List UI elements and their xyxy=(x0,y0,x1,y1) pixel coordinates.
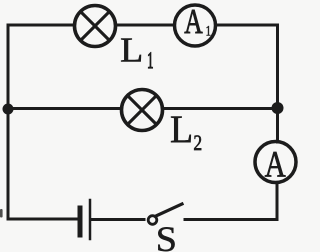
node junction right xyxy=(272,102,284,114)
wire right vertical lower xyxy=(276,183,279,220)
svg-text:S: S xyxy=(156,220,177,252)
svg-text:A: A xyxy=(184,2,202,41)
svg-text:1: 1 xyxy=(206,22,211,39)
wire top segment 2 xyxy=(116,24,174,27)
ammeter A xyxy=(255,142,296,183)
wire left vertical xyxy=(7,25,10,219)
svg-text:L: L xyxy=(120,31,143,69)
wire top segment 1 xyxy=(8,24,74,27)
svg-text:1: 1 xyxy=(147,48,153,74)
wire middle segment 1 xyxy=(8,107,121,110)
svg-text:2: 2 xyxy=(193,131,202,155)
node junction left xyxy=(3,104,14,115)
lamp L1 xyxy=(75,6,116,47)
ammeter A1 xyxy=(175,5,216,46)
label L1 xyxy=(120,31,153,74)
wire top segment 3 xyxy=(216,24,278,27)
wire bottom segment 2 xyxy=(92,218,145,221)
svg-text:A: A xyxy=(265,144,287,185)
wire bottom segment 1 xyxy=(8,218,78,221)
switch S xyxy=(148,204,182,224)
wire right vertical upper xyxy=(276,25,279,142)
label L2 xyxy=(170,109,202,156)
svg-text:L: L xyxy=(170,109,193,152)
lamp L2 xyxy=(122,90,163,131)
battery cell xyxy=(80,200,90,239)
wire middle segment 2 xyxy=(163,107,278,110)
wire bottom segment 3 xyxy=(185,218,277,221)
label A1 xyxy=(184,2,211,41)
